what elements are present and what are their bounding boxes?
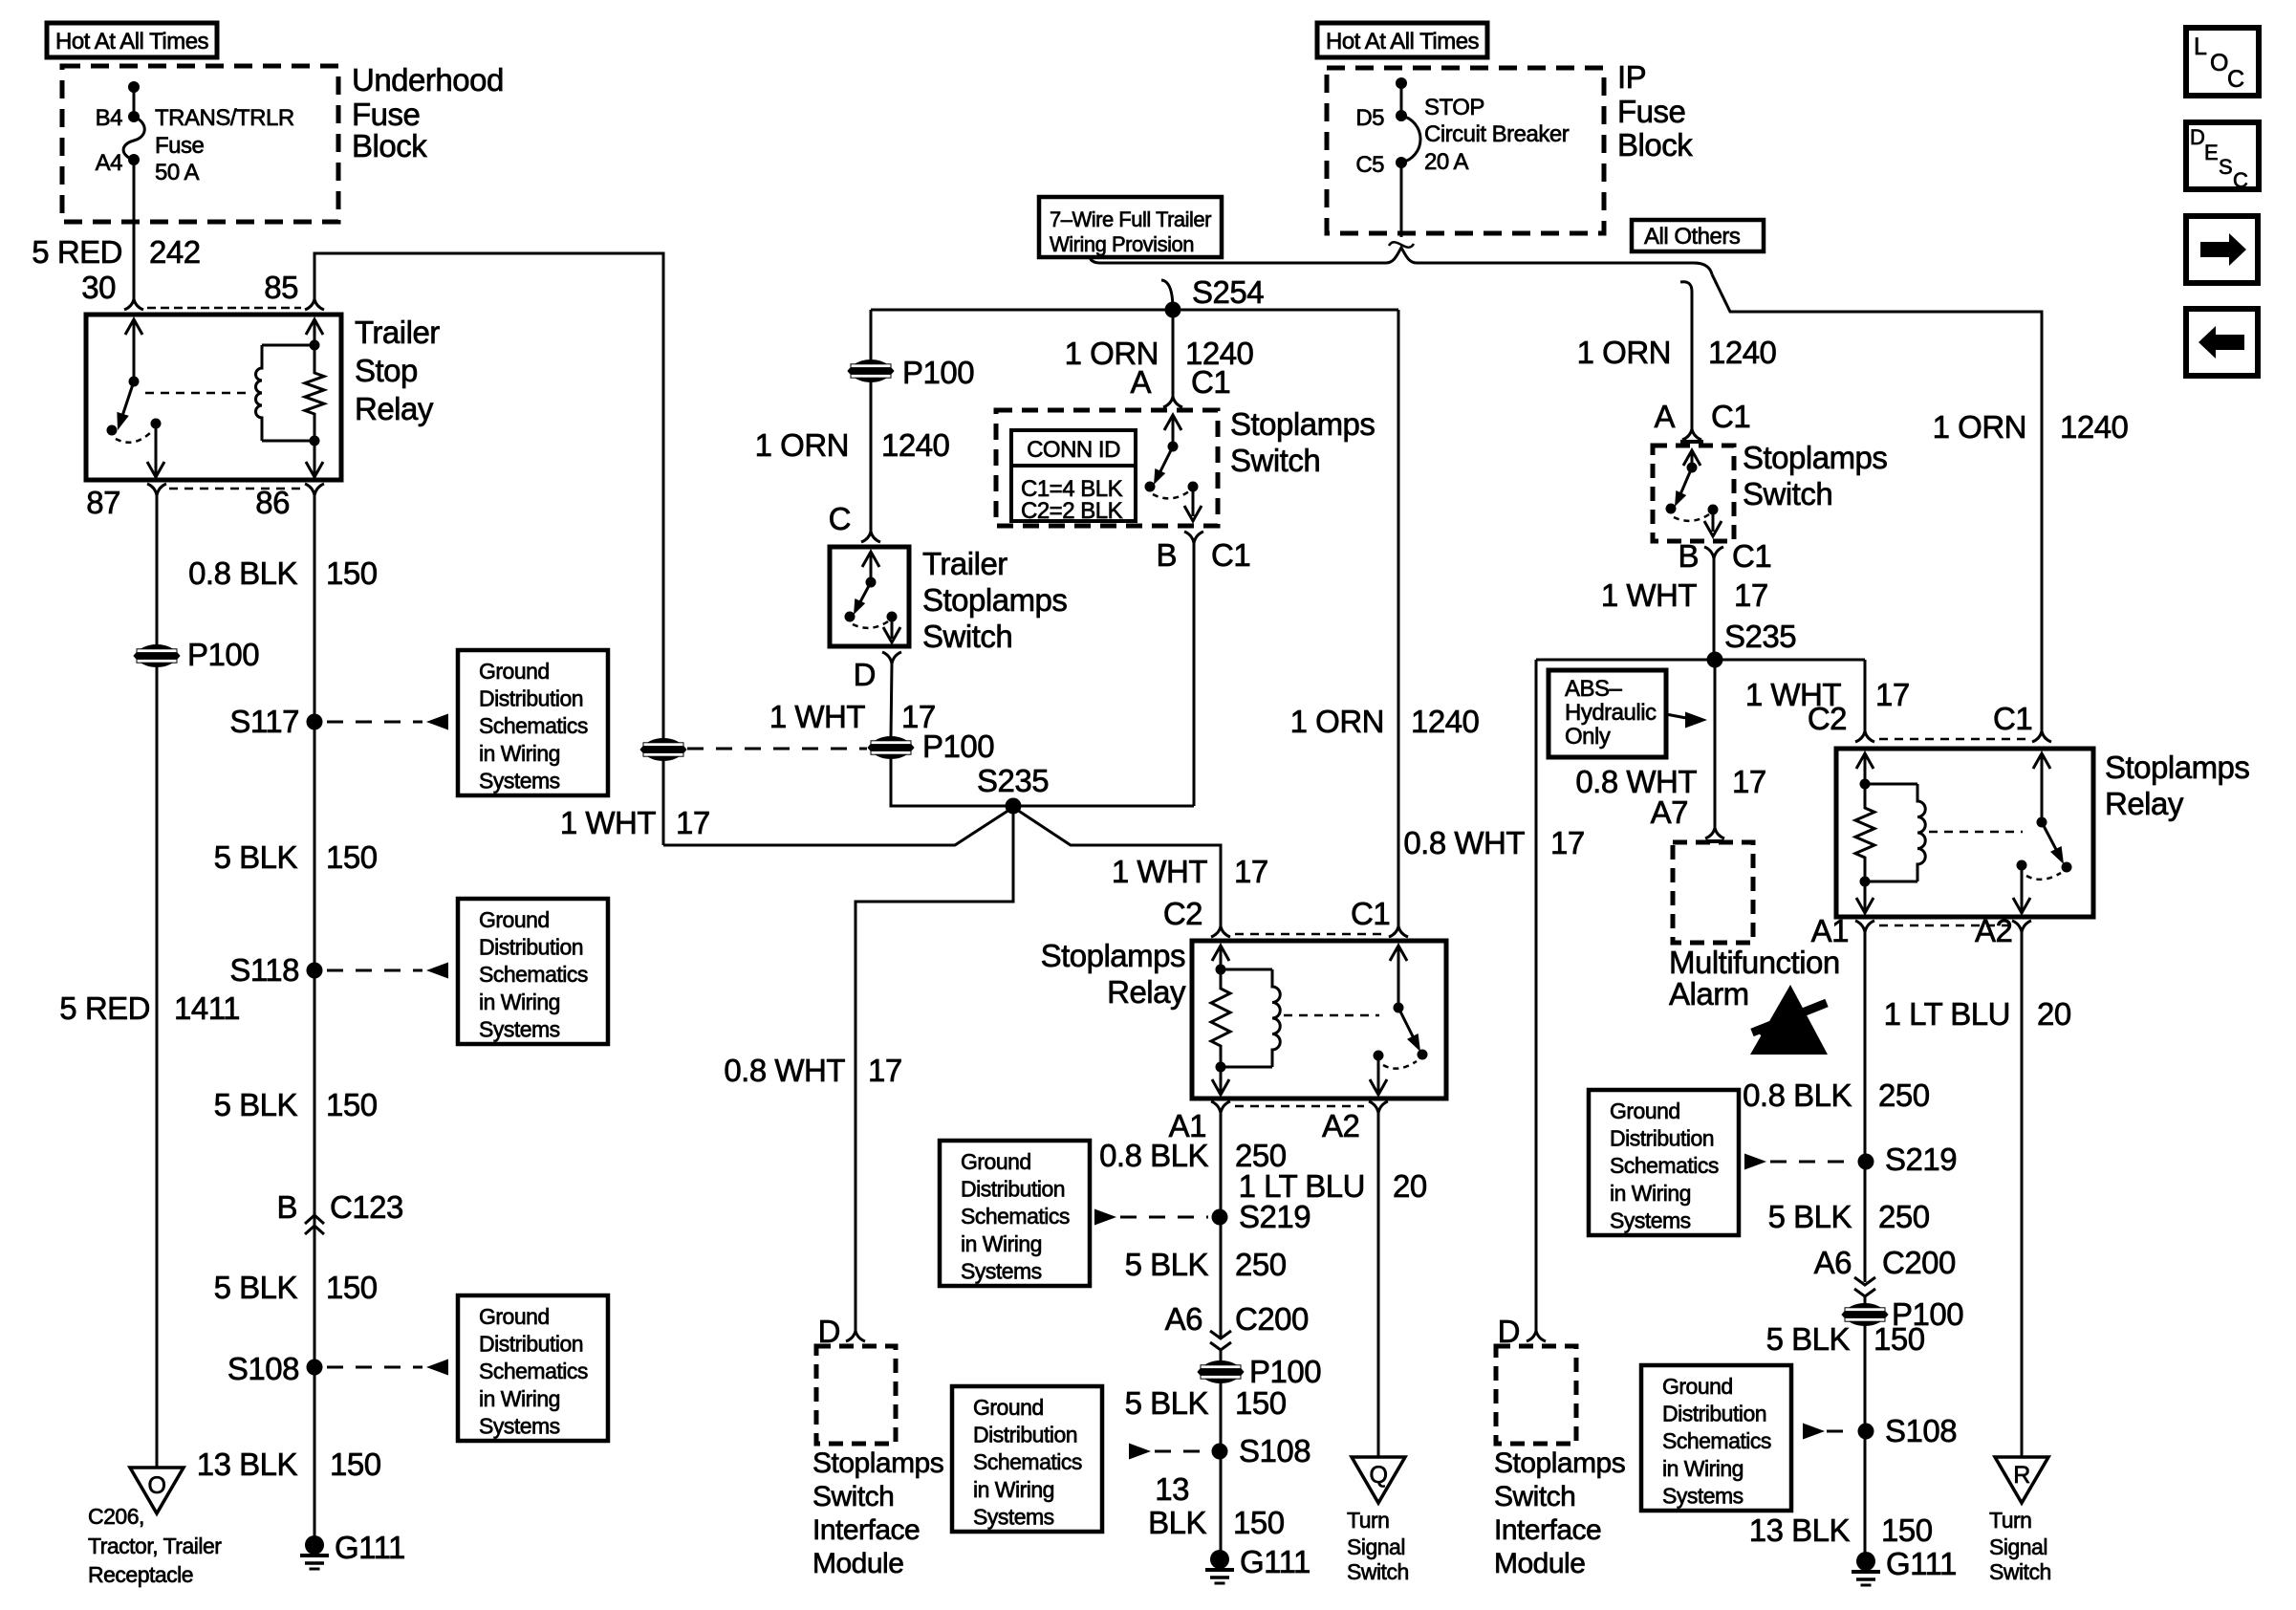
svg-text:Switch: Switch <box>922 619 1012 654</box>
connector dashed line right relay bottom <box>1879 925 2008 927</box>
svg-text:17: 17 <box>1550 825 1585 860</box>
wire label 1 ORN 1240 (x911) <box>755 427 950 463</box>
svg-text:0.8 WHT: 0.8 WHT <box>1403 825 1525 860</box>
svg-text:Schematics: Schematics <box>479 713 588 738</box>
splice S108 (right) <box>1858 1424 1874 1440</box>
svg-text:20: 20 <box>2037 996 2071 1032</box>
CONN ID box <box>1011 430 1136 524</box>
middle relay coil bottom to A1 <box>1212 1062 1229 1096</box>
svg-text:150: 150 <box>326 1270 378 1305</box>
pin label 85 <box>264 270 298 305</box>
svg-text:C1: C1 <box>1993 701 2032 736</box>
pin label A1 (right relay) <box>1811 913 1849 948</box>
connector pin A C1 (right switch) <box>1680 429 1703 442</box>
connector pin C1 (right relay) <box>2032 731 2051 742</box>
splice label S219 (middle) <box>1239 1199 1310 1234</box>
component label Turn Signal Switch (middle) <box>1347 1508 1409 1584</box>
svg-text:S108: S108 <box>1885 1413 1957 1448</box>
svg-text:5 BLK: 5 BLK <box>214 1270 298 1305</box>
ground G111 (left) <box>300 1530 405 1569</box>
stoplamps switch (right) dashed box <box>1653 446 1734 541</box>
svg-text:G111: G111 <box>335 1530 405 1565</box>
svg-text:1 WHT: 1 WHT <box>560 805 657 840</box>
wire label 0.8 BLK 250 (right) <box>1743 1077 1930 1113</box>
svg-text:7–Wire Full Trailer: 7–Wire Full Trailer <box>1050 207 1211 231</box>
svg-text:Ground: Ground <box>479 907 550 932</box>
connector label P100 <box>187 637 259 672</box>
right relay resistor <box>1855 784 1874 881</box>
svg-text:5 BLK: 5 BLK <box>214 839 298 875</box>
svg-text:Turn: Turn <box>1347 1508 1389 1533</box>
splice S235 (right) <box>1707 652 1723 668</box>
stoplamps switch (right) interior <box>1666 450 1722 536</box>
relay coil dashed actuation link <box>145 392 247 395</box>
svg-text:Fuse: Fuse <box>155 133 205 159</box>
svg-text:Systems: Systems <box>1662 1483 1744 1508</box>
reference dashed arrow S117 <box>327 714 448 730</box>
svg-text:Tractor, Trailer: Tractor, Trailer <box>88 1534 222 1558</box>
svg-text:Hot At All Times: Hot At All Times <box>55 29 209 54</box>
middle relay resistor <box>1211 969 1230 1067</box>
pin label C1 (right switch) <box>1711 399 1750 434</box>
wire S235 down branch to interface module <box>856 806 1013 1331</box>
component label Stoplamps Switch (right) <box>1743 440 1887 511</box>
svg-text:P100: P100 <box>902 355 974 390</box>
splice S117 <box>307 714 323 730</box>
svg-text:13 BLK: 13 BLK <box>1749 1512 1851 1548</box>
pin label B (middle switch) <box>1156 537 1177 573</box>
connector label C200 (middle) <box>1235 1301 1309 1337</box>
svg-text:BLK: BLK <box>1148 1505 1206 1540</box>
wire label 5 BLK 250 (right) <box>1768 1199 1930 1234</box>
svg-text:1240: 1240 <box>1708 335 1777 370</box>
svg-text:P100: P100 <box>922 729 994 764</box>
connector pin D <box>882 652 901 664</box>
svg-text:0.8 BLK: 0.8 BLK <box>1743 1077 1852 1113</box>
svg-text:17: 17 <box>1875 677 1910 712</box>
wire A2 down to turn signal switch (right) <box>2021 932 2024 1457</box>
svg-text:150: 150 <box>326 555 378 591</box>
svg-text:A: A <box>1654 399 1675 434</box>
connector pin 87 <box>147 484 166 495</box>
component label Stoplamps Switch Interface Module (right) <box>1494 1447 1625 1579</box>
svg-text:Hydraulic: Hydraulic <box>1565 700 1657 726</box>
svg-text:Systems: Systems <box>961 1258 1042 1283</box>
svg-text:in Wiring: in Wiring <box>961 1231 1042 1256</box>
splice label S235 (middle) <box>977 763 1049 798</box>
wire pin D to P100 <box>891 664 892 736</box>
stoplamps switch (middle) interior <box>1145 415 1202 521</box>
relay pin85 leg <box>306 319 323 351</box>
svg-text:150: 150 <box>326 1087 378 1122</box>
ground G111 (right) <box>1852 1546 1957 1585</box>
svg-text:Block: Block <box>1617 127 1693 163</box>
svg-text:Fuse: Fuse <box>352 97 420 132</box>
svg-text:Stoplamps: Stoplamps <box>1041 938 1185 973</box>
splice label S254 <box>1192 274 1264 310</box>
svg-text:Switch: Switch <box>1230 443 1320 478</box>
pin label C1 (middle relay) <box>1351 896 1390 931</box>
right relay coil bottom to A1 <box>1856 877 1874 914</box>
middle relay C2 leg <box>1212 946 1229 975</box>
svg-text:5 BLK: 5 BLK <box>1768 1199 1852 1234</box>
svg-text:S254: S254 <box>1192 274 1264 310</box>
component label Stoplamps Switch Interface Module (middle) <box>812 1447 943 1579</box>
connector C123 inline <box>305 1215 324 1234</box>
wire label 5 BLK 150 (b) <box>214 1087 378 1122</box>
wire label 5 BLK 150 (right) <box>1766 1321 1925 1357</box>
connector pin B C1 (middle switch) <box>1184 532 1203 543</box>
svg-text:D: D <box>854 657 876 692</box>
svg-text:Stoplamps: Stoplamps <box>1743 440 1887 475</box>
component label Underhood Fuse Block <box>352 62 504 163</box>
connector pin C1 (middle relay) <box>1389 926 1408 937</box>
connector Q triangle <box>1352 1457 1405 1503</box>
middle relay switch leg <box>1370 946 1428 1095</box>
svg-text:R: R <box>2013 1462 2030 1489</box>
legend box LOC <box>2186 28 2259 96</box>
wire crook at stoplamps switch feed <box>1680 282 1692 429</box>
wire label 0.8 WHT 17 (module D right) <box>1403 825 1584 860</box>
svg-text:C206,: C206, <box>88 1504 144 1529</box>
svg-text:Multifunction: Multifunction <box>1669 945 1840 980</box>
component label IP Fuse Block <box>1617 59 1693 163</box>
svg-text:in Wiring: in Wiring <box>1610 1181 1691 1206</box>
svg-text:S235: S235 <box>1724 619 1796 654</box>
wire label 5 BLK 150 (c) <box>214 1270 378 1305</box>
connector label P100 (right chain) <box>1892 1296 1963 1332</box>
svg-text:Systems: Systems <box>479 1016 560 1041</box>
svg-text:C: C <box>829 501 851 536</box>
svg-text:150: 150 <box>1235 1385 1287 1421</box>
splice S235 (middle) <box>1006 798 1022 815</box>
wire label 1 WHT 17 (right relay C2 feed) <box>1745 677 1910 712</box>
wire label 13 BLK 150 (middle) <box>1148 1471 1285 1540</box>
svg-text:Stop: Stop <box>355 353 418 388</box>
svg-text:C5: C5 <box>1355 152 1384 178</box>
svg-text:Systems: Systems <box>479 768 560 793</box>
svg-text:Ground: Ground <box>1662 1374 1733 1399</box>
wire S235 horizontal (right) <box>1536 659 1865 662</box>
pin label A (right switch) <box>1654 399 1675 434</box>
svg-text:Systems: Systems <box>479 1413 560 1438</box>
pin label A (middle switch) <box>1130 364 1151 400</box>
svg-text:1 ORN: 1 ORN <box>755 427 849 463</box>
wire label 13 BLK 150 (right) <box>1749 1512 1933 1548</box>
svg-text:A7: A7 <box>1651 794 1688 830</box>
connector P100 grommet (x911) <box>848 360 894 382</box>
right relay dashed actuation link <box>1929 831 2023 834</box>
connector dashed line right relay top <box>1879 738 2028 741</box>
wire P100 to S235 horizontal <box>891 759 1194 806</box>
connector pin B C1 (right switch) <box>1704 547 1723 558</box>
svg-text:5 BLK: 5 BLK <box>1125 1385 1209 1421</box>
pin label C1 (middle switch) <box>1191 364 1230 400</box>
pin label B (right switch) <box>1678 538 1699 574</box>
label box All Others <box>1632 220 1764 251</box>
connector label C123 <box>330 1189 403 1225</box>
svg-text:Wiring Provision: Wiring Provision <box>1050 232 1194 256</box>
pin label A2 (right relay) <box>1975 913 2012 948</box>
svg-text:Switch: Switch <box>1743 476 1832 511</box>
svg-text:Module: Module <box>1494 1548 1585 1579</box>
svg-text:5 BLK: 5 BLK <box>214 1087 298 1122</box>
svg-text:Circuit Breaker: Circuit Breaker <box>1424 121 1570 147</box>
wire label 1 LT BLU 20 (right) <box>1884 996 2071 1032</box>
svg-text:Trailer: Trailer <box>922 546 1007 581</box>
svg-text:Systems: Systems <box>1610 1207 1691 1232</box>
svg-text:Schematics: Schematics <box>1662 1428 1771 1453</box>
wire label 5 BLK 150 (middle) <box>1125 1385 1287 1421</box>
module box Stoplamps Switch Interface Module (right) <box>1496 1346 1576 1444</box>
legend box forward arrow <box>2186 216 2258 283</box>
wire label 1 ORN 1240 (x2136) <box>1933 409 2129 445</box>
wire A1 down to G111 (right) <box>1864 932 1867 1561</box>
svg-text:Stoplamps: Stoplamps <box>1494 1447 1625 1479</box>
svg-text:1240: 1240 <box>881 427 950 463</box>
legend box DESC <box>2186 122 2259 192</box>
wire S254 right corner down to relay C1 <box>1397 310 1400 926</box>
svg-text:Switch: Switch <box>812 1481 894 1512</box>
svg-text:Q: Q <box>1370 1462 1388 1489</box>
connector dashed line middle relay bottom <box>1235 1105 1364 1108</box>
fuse value label <box>155 105 294 185</box>
svg-text:C: C <box>2227 66 2244 93</box>
svg-text:L: L <box>2194 33 2207 60</box>
svg-text:5 BLK: 5 BLK <box>1766 1321 1851 1357</box>
wire squiggle break <box>1389 242 1414 247</box>
connector P100 grommet (trailer feed) <box>640 739 686 761</box>
svg-text:20: 20 <box>1393 1168 1427 1204</box>
splice label S108 <box>227 1351 299 1386</box>
svg-text:Switch: Switch <box>1494 1481 1575 1512</box>
svg-text:Turn: Turn <box>1989 1508 2031 1533</box>
connector pin A2 (right relay) <box>2012 921 2031 932</box>
svg-text:S117: S117 <box>229 704 299 739</box>
reference box Ground Distribution (middle S219) <box>940 1141 1090 1286</box>
wire grommet down to junction <box>662 761 665 845</box>
reference dashed arrow to S219 (right) <box>1744 1154 1855 1170</box>
svg-text:0.8 WHT: 0.8 WHT <box>724 1053 845 1088</box>
svg-text:Schematics: Schematics <box>961 1204 1070 1229</box>
svg-text:C1: C1 <box>1711 399 1750 434</box>
svg-text:Hot At All Times: Hot At All Times <box>1326 29 1480 54</box>
fuse TRANS/TRLR 50A <box>123 81 144 165</box>
splice S118 <box>307 963 323 979</box>
wire pin 87 down to C206 <box>156 495 159 1468</box>
svg-text:Distribution: Distribution <box>479 1332 583 1357</box>
reference box Ground Distribution (right S108) <box>1641 1365 1791 1511</box>
pin label A6 (middle) <box>1165 1301 1202 1337</box>
label box "Hot At All Times" (right) <box>1317 23 1487 57</box>
pin label B4 <box>96 105 123 131</box>
svg-text:Signal: Signal <box>1989 1534 2047 1559</box>
connector pin A2 (middle relay) <box>1369 1101 1388 1113</box>
pin label A1 (middle relay) <box>1169 1108 1206 1143</box>
wire fuse A4 to relay pin 30 <box>133 160 136 299</box>
svg-text:in Wiring: in Wiring <box>973 1477 1054 1502</box>
circuit breaker STOP 20A <box>1396 77 1420 168</box>
legend box back arrow <box>2186 309 2258 376</box>
connector pin D (right interface module) <box>1527 1331 1546 1341</box>
svg-text:5 RED: 5 RED <box>59 990 150 1026</box>
trailer stoplamps switch interior <box>845 552 901 642</box>
relay armature <box>107 381 135 436</box>
svg-text:Distribution: Distribution <box>1610 1126 1714 1151</box>
svg-text:150: 150 <box>1233 1505 1285 1540</box>
pin label A4 <box>96 150 123 176</box>
splice label S219 (right) <box>1885 1142 1957 1177</box>
connector dashed line relay bottom <box>169 488 301 490</box>
wire S254 to switch A <box>1172 310 1175 397</box>
svg-text:C1: C1 <box>1732 538 1771 574</box>
svg-text:S219: S219 <box>1885 1142 1957 1177</box>
svg-text:Switch: Switch <box>1989 1559 2051 1584</box>
IP Fuse Block dashed box <box>1327 68 1604 233</box>
wire S235 right branch to relay C2 <box>1017 810 1221 926</box>
component label Stoplamps Relay (right) <box>2105 750 2249 821</box>
svg-text:Schematics: Schematics <box>973 1449 1082 1474</box>
connector pin C <box>861 532 880 542</box>
svg-text:C1: C1 <box>1351 896 1390 931</box>
svg-text:in Wiring: in Wiring <box>479 741 560 766</box>
connector label C1 (below right switch) <box>1732 538 1771 574</box>
svg-text:Systems: Systems <box>973 1504 1054 1529</box>
svg-text:Ground: Ground <box>961 1149 1031 1174</box>
svg-text:17: 17 <box>676 805 710 840</box>
pin label D <box>854 657 876 692</box>
reference box Ground Distribution (S118) <box>458 899 608 1044</box>
svg-text:Distribution: Distribution <box>961 1177 1065 1202</box>
connector label P100 (x911) <box>902 355 974 390</box>
svg-text:Distribution: Distribution <box>1662 1402 1766 1426</box>
svg-text:A: A <box>1130 364 1151 400</box>
svg-text:Ground: Ground <box>1610 1099 1680 1123</box>
svg-text:250: 250 <box>1878 1199 1930 1234</box>
pin label A2 (middle relay) <box>1322 1108 1359 1143</box>
connector P100 grommet (middle chain) <box>1198 1361 1244 1383</box>
svg-text:17: 17 <box>1732 764 1766 799</box>
right relay switch leg <box>2013 753 2072 913</box>
bus wire with brace ends and cusp <box>1090 248 1712 274</box>
reference box ABS-Hydraulic Only <box>1549 670 1666 757</box>
component label Multifunction Alarm <box>1669 945 1840 1012</box>
pin label D5 <box>1355 105 1384 131</box>
svg-text:Schematics: Schematics <box>479 962 588 987</box>
breaker value label <box>1424 95 1570 175</box>
wire label 0.8 WHT 17 (module D feed) <box>724 1053 901 1088</box>
wire switch B down to S235 <box>1193 543 1196 806</box>
svg-text:Relay: Relay <box>2105 786 2184 821</box>
svg-text:TRANS/TRLR: TRANS/TRLR <box>155 105 294 131</box>
reference arrow ABS <box>1666 712 1707 729</box>
svg-text:B: B <box>1678 538 1699 574</box>
stoplamps switch (middle) dashed box <box>996 410 1218 526</box>
svg-text:250: 250 <box>1878 1077 1930 1113</box>
svg-text:1 ORN: 1 ORN <box>1290 704 1384 739</box>
splice S219 (right) <box>1858 1154 1874 1170</box>
wire crook above S254 <box>1161 280 1173 310</box>
svg-text:S108: S108 <box>227 1351 299 1386</box>
reference dashed arrow S108 left <box>327 1360 448 1376</box>
svg-text:C200: C200 <box>1882 1245 1956 1280</box>
svg-text:C2: C2 <box>1808 701 1847 736</box>
connector pin D (interface module) <box>846 1331 865 1341</box>
svg-text:85: 85 <box>264 270 298 305</box>
splice label S108 (right) <box>1885 1413 1957 1448</box>
module box Multifunction Alarm dashed <box>1673 842 1753 943</box>
svg-text:1 WHT: 1 WHT <box>769 699 866 734</box>
wire S254 left branch down <box>870 310 873 532</box>
wire relay85 corner to middle <box>314 253 663 738</box>
svg-text:O: O <box>2210 50 2228 76</box>
svg-text:Interface: Interface <box>812 1514 920 1546</box>
connector dashed line middle relay top <box>1235 933 1384 936</box>
svg-text:D: D <box>2190 125 2204 149</box>
svg-text:87: 87 <box>86 485 120 520</box>
svg-text:D: D <box>1498 1314 1520 1349</box>
svg-text:C123: C123 <box>330 1189 403 1225</box>
svg-text:Signal: Signal <box>1347 1534 1405 1559</box>
splice label S118 <box>229 952 299 988</box>
svg-text:17: 17 <box>868 1053 902 1088</box>
svg-text:1240: 1240 <box>2060 409 2129 445</box>
connector label C200 (right) <box>1882 1245 1956 1280</box>
relay box Stoplamps Relay (right) <box>1836 749 2093 917</box>
component label Trailer Stoplamps Switch <box>922 546 1067 654</box>
relay fixed contact to pin 87 <box>147 419 164 478</box>
reference box Ground Distribution (right S219) <box>1589 1090 1739 1235</box>
connector C200 inline (middle) <box>1210 1331 1231 1350</box>
splice S254 <box>1165 302 1181 318</box>
svg-text:5 RED: 5 RED <box>32 234 122 270</box>
svg-text:C200: C200 <box>1235 1301 1309 1337</box>
svg-text:A6: A6 <box>1814 1245 1852 1280</box>
connector pin 85 <box>305 299 324 310</box>
pin label D (right interface module) <box>1498 1314 1520 1349</box>
svg-text:S: S <box>2219 155 2232 179</box>
svg-text:1411: 1411 <box>174 990 240 1026</box>
svg-text:17: 17 <box>1734 577 1768 613</box>
module box Stoplamps Switch Interface Module (middle) <box>816 1346 896 1444</box>
svg-text:C: C <box>2233 168 2248 192</box>
svg-text:Alarm: Alarm <box>1669 976 1749 1012</box>
svg-text:STOP: STOP <box>1424 95 1484 120</box>
svg-text:Distribution: Distribution <box>479 935 583 960</box>
connector label P100 (x932) <box>922 729 994 764</box>
wire A1 down to G111 (middle) <box>1220 1113 1223 1559</box>
label box "Hot At All Times" (left) <box>47 23 217 57</box>
svg-text:150: 150 <box>1874 1321 1925 1357</box>
reference box Ground Distribution (S108 left) <box>458 1295 608 1441</box>
pin label C1 (right relay) <box>1993 701 2032 736</box>
connector C200 inline (right) <box>1854 1277 1875 1296</box>
pin label A7 <box>1651 794 1688 830</box>
svg-text:All Others: All Others <box>1644 224 1741 250</box>
connector pin 86 <box>305 484 324 495</box>
svg-text:IP: IP <box>1617 59 1646 95</box>
ESD symbol <box>1750 985 1828 1055</box>
svg-text:Relay: Relay <box>355 391 434 426</box>
svg-text:A2: A2 <box>1975 913 2012 948</box>
splice label S235 (right) <box>1724 619 1796 654</box>
connector pin A1 (middle relay) <box>1211 1101 1230 1113</box>
wire label 1 WHT 17 (right) <box>1601 577 1768 613</box>
component label Turn Signal Switch (right) <box>1989 1508 2051 1584</box>
svg-text:Block: Block <box>352 128 427 163</box>
svg-text:Schematics: Schematics <box>479 1359 588 1383</box>
pin label C2 (middle relay) <box>1163 896 1202 931</box>
